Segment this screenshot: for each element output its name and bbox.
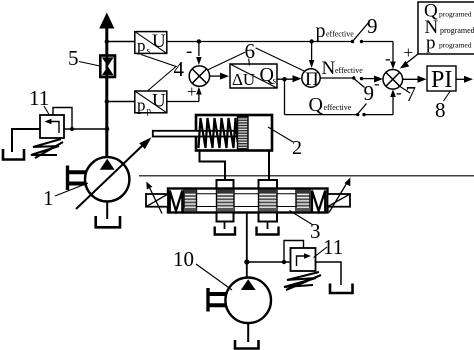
wire: pump 1 supply main vertical line xyxy=(105,27,108,158)
label 11 bottom-right with pointer xyxy=(314,235,344,259)
cylinder 2 rod xyxy=(153,131,238,137)
svg-text:programedl: programedl xyxy=(440,26,474,35)
svg-text:programed: programed xyxy=(439,41,472,50)
valve 3 right proportional arrow xyxy=(329,178,350,213)
valve 3 bottom port tabs xyxy=(217,213,278,222)
relief valve 11 top-left pilot loop xyxy=(53,108,74,132)
svg-text:-: - xyxy=(186,41,192,62)
label p effective xyxy=(316,20,355,42)
svg-text:5: 5 xyxy=(68,46,79,70)
label 8 with pointer xyxy=(435,92,450,123)
relief valve 11 top-left xyxy=(40,115,64,138)
label 2 with pointer xyxy=(268,127,302,159)
wire: solenoid control line xyxy=(139,175,474,177)
svg-text:p: p xyxy=(147,106,152,116)
wire: comparator A to dU converter xyxy=(210,73,229,80)
wire: Pp output into comparator A xyxy=(167,87,202,102)
wire: relief valve 11 bottom-right drain xyxy=(316,262,342,285)
wire: relief valve 11 top-left to main line xyxy=(64,127,109,132)
switch 9 on p effective line xyxy=(351,14,378,43)
svg-text:p: p xyxy=(316,20,326,42)
cylinder 2 actuator body xyxy=(196,115,272,151)
label N effective xyxy=(322,58,364,79)
svg-text:+: + xyxy=(404,43,414,62)
cylinder 2 piston xyxy=(238,117,249,150)
svg-text:+: + xyxy=(187,82,197,101)
svg-text:2: 2 xyxy=(292,137,302,159)
pump 1 variable displacement pump xyxy=(85,157,129,201)
relief valve 11 top-left spring xyxy=(31,139,63,158)
pump 1 variable arrow xyxy=(76,137,152,209)
svg-text:ΔU: ΔU xyxy=(232,70,255,89)
valve 3 right solenoid xyxy=(328,194,351,207)
valve 3 left solenoid xyxy=(146,194,168,207)
wire: branch to sensor Pp xyxy=(105,99,135,103)
svg-text:Q: Q xyxy=(309,94,324,116)
svg-text:PI: PI xyxy=(431,67,452,93)
sensor Pp pressure transducer xyxy=(135,91,167,116)
PI controller xyxy=(427,66,456,93)
comparator summing junction 7 xyxy=(383,49,403,89)
component 5 measuring orifice xyxy=(100,56,115,78)
label 5 xyxy=(68,46,100,70)
valve 3 right tank xyxy=(257,222,279,235)
wire: N effective line to comparator 7 xyxy=(320,76,383,83)
valve 3 body xyxy=(168,189,328,213)
svg-text:p: p xyxy=(426,33,436,54)
svg-text:7: 7 xyxy=(406,82,417,106)
wire: relief valve 11 top-left drain xyxy=(12,129,40,152)
wire: comparator 7 to PI xyxy=(403,76,427,83)
svg-text:9: 9 xyxy=(367,14,378,38)
wire: cylinder right port to valve xyxy=(268,151,270,182)
pump 1 tank xyxy=(96,202,120,228)
relief valve 11 bottom-right pilot loop xyxy=(284,241,304,263)
svg-text:11: 11 xyxy=(29,86,49,110)
svg-text:-: - xyxy=(385,49,391,68)
label Q effective xyxy=(309,94,352,116)
wire: drop into multiplier from p line xyxy=(309,39,315,68)
wire: programed command into comparator 7 xyxy=(400,43,418,69)
valve 3 left spring xyxy=(170,191,183,213)
flow arrow at top of supply line xyxy=(99,13,114,29)
switch 9 on N effective line xyxy=(352,74,380,105)
svg-text:-: - xyxy=(374,74,380,93)
svg-text:N: N xyxy=(322,58,336,79)
pump 10 drive shaft xyxy=(207,288,226,312)
svg-text:U: U xyxy=(152,91,166,112)
svg-text:6: 6 xyxy=(245,39,256,63)
wire: p effective line from Ps to comparator 7 xyxy=(167,42,396,70)
wire: Qs output to multiplier xyxy=(277,75,302,82)
wire: drop into comparator A from p line xyxy=(196,39,202,65)
wire: cylinder left port to valve xyxy=(200,151,226,182)
svg-text:11: 11 xyxy=(323,235,343,259)
svg-text:p: p xyxy=(137,36,146,55)
label 4 xyxy=(141,55,185,91)
multiplier power computation circle xyxy=(302,69,320,90)
sensor Ps pressure transducer xyxy=(135,31,167,56)
svg-text:9: 9 xyxy=(364,81,375,105)
programed values box xyxy=(418,1,474,55)
tank under relief valve 11 top-left xyxy=(3,149,24,160)
label 7 with pointer xyxy=(399,82,417,106)
pump 1 drive shaft xyxy=(67,166,86,191)
wire: branch to sensor Ps xyxy=(105,39,135,43)
svg-text:10: 10 xyxy=(173,247,194,271)
relief valve 11 bottom-right xyxy=(291,248,316,271)
wire: pump 10 pressure line to valve center xyxy=(244,213,249,279)
svg-text:s: s xyxy=(273,76,277,86)
label 10 with pointer xyxy=(173,247,232,290)
svg-text:s: s xyxy=(147,46,151,56)
tank under relief valve 11 bottom-right xyxy=(330,284,353,294)
relief valve 11 bottom-right spring xyxy=(284,272,321,290)
svg-text:8: 8 xyxy=(435,98,446,122)
switch 9 on Q effective line xyxy=(356,83,402,116)
svg-text:U: U xyxy=(152,31,166,52)
valve 3 top port tabs xyxy=(217,180,278,189)
label 11 top-left with pointer xyxy=(29,86,49,115)
svg-text:effective: effective xyxy=(326,30,354,39)
label 3 with pointer xyxy=(290,211,321,244)
valve 3 left tank xyxy=(215,222,235,235)
wire: PI output xyxy=(456,76,473,83)
pump 10 fixed pump xyxy=(225,278,271,324)
valve 3 right spring xyxy=(312,191,325,213)
wire: branch to relief valve 11 bottom xyxy=(247,260,291,264)
valve 3 spool lands xyxy=(184,190,310,212)
label 1 with pointer xyxy=(43,183,88,210)
cylinder 2 spring xyxy=(199,118,238,148)
label 6 with pointers xyxy=(208,39,305,71)
svg-text:3: 3 xyxy=(310,219,321,243)
svg-text:1: 1 xyxy=(43,186,54,210)
svg-text:p: p xyxy=(137,96,146,115)
svg-text:effective: effective xyxy=(335,66,363,75)
comparator summing junction A xyxy=(186,41,210,101)
svg-text:effective: effective xyxy=(324,103,352,112)
wire: Q effective feedback line xyxy=(285,79,396,114)
dU to Q converter block xyxy=(230,64,277,89)
pump 10 tank xyxy=(235,323,259,349)
valve 3 left proportional arrow xyxy=(146,182,162,214)
svg-text:4: 4 xyxy=(174,57,185,81)
svg-text:Π: Π xyxy=(305,69,319,90)
svg-text:programed: programed xyxy=(439,10,472,19)
